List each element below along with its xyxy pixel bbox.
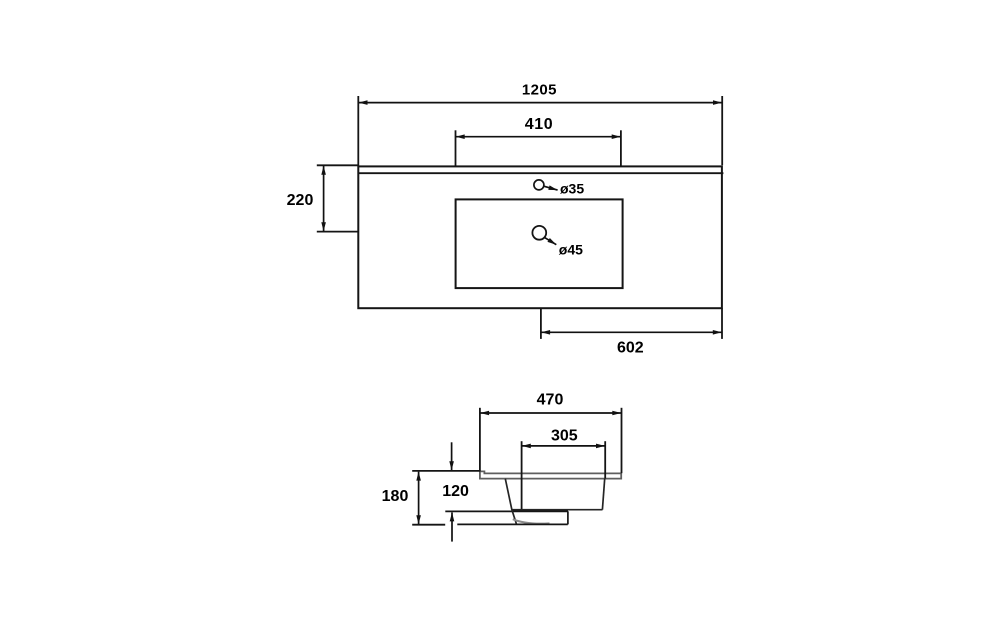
svg-text:ø45: ø45 bbox=[559, 242, 583, 258]
dim 220 extension line bottom bbox=[317, 231, 359, 233]
svg-text:470: 470 bbox=[537, 391, 564, 408]
drain right vertical bbox=[567, 511, 569, 524]
drain bottom line bbox=[457, 523, 568, 525]
svg-text:1205: 1205 bbox=[522, 82, 557, 99]
dim 220 dimension line with arrows bbox=[323, 166, 325, 231]
dim 305 extension line left (into basin) bbox=[521, 441, 523, 510]
basin left wall (section) bbox=[505, 479, 512, 510]
dim 470 extension line left bbox=[479, 408, 481, 471]
dim 470 dimension line with arrows bbox=[480, 412, 621, 414]
dim 180 bottom extension line bbox=[412, 524, 445, 526]
dim 602 dimension line with arrows bbox=[541, 331, 722, 333]
leader arrow for d45 bbox=[544, 237, 556, 244]
svg-text:305: 305 bbox=[551, 428, 578, 445]
dim 410 extension line left bbox=[455, 130, 457, 166]
counter front edge inner line bbox=[359, 172, 724, 174]
svg-text:120: 120 bbox=[442, 483, 469, 500]
svg-text:410: 410 bbox=[525, 116, 554, 133]
dim 1205 dimension line with arrows bbox=[359, 102, 723, 104]
drain hole circle d45 bbox=[532, 226, 546, 240]
counter level extension line bbox=[412, 470, 480, 472]
dim 410 extension line right bbox=[620, 130, 622, 166]
basin bottom reference line for dim 120 bbox=[445, 510, 568, 512]
basin right wall (section) bbox=[602, 479, 604, 510]
dim 305 dimension line with arrows bbox=[522, 445, 605, 447]
leader arrow for d35 bbox=[544, 186, 557, 190]
dim 120 upper arrow (pointing down to counter top) bbox=[451, 442, 453, 470]
dim 180 dimension line with arrows bbox=[418, 472, 420, 525]
dim 305 extension line right bbox=[604, 441, 606, 478]
counter outline (top view main rectangle) bbox=[358, 166, 722, 308]
basin bottom (section) bbox=[512, 509, 603, 511]
faucet hole circle d35 bbox=[534, 180, 544, 190]
svg-text:602: 602 bbox=[617, 340, 644, 357]
dim 1205 extension line right bbox=[721, 96, 723, 165]
dim 602 extension line right bbox=[721, 308, 723, 339]
counter slab bar (section) bbox=[480, 471, 621, 478]
svg-text:220: 220 bbox=[287, 192, 314, 209]
svg-text:ø35: ø35 bbox=[560, 180, 584, 196]
drain left slant (section) bbox=[512, 510, 517, 524]
svg-text:180: 180 bbox=[382, 488, 409, 505]
drain curved bottom (gray) bbox=[513, 519, 550, 523]
dim 602 extension line left bbox=[540, 308, 542, 339]
dim 220 extension line top bbox=[317, 164, 359, 166]
dim 1205 extension line left bbox=[357, 96, 359, 166]
dim 470 extension line right bbox=[621, 408, 623, 473]
dim 120 lower arrow (pointing up) bbox=[451, 512, 453, 541]
basin cutout rectangle bbox=[456, 199, 623, 288]
dim 410 dimension line with arrows bbox=[456, 136, 621, 138]
